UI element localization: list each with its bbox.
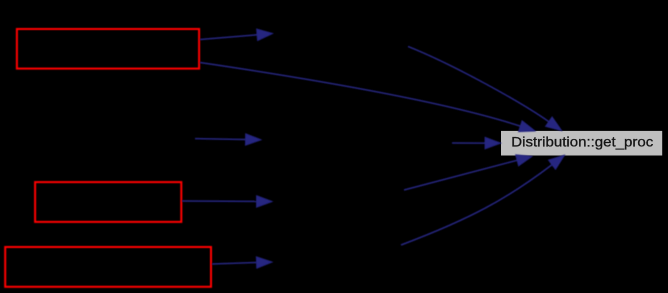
edge E2 box1->get_proc [200,63,535,132]
edge E6 box2->nodeD [182,196,272,207]
node get_proc (current node, grey) [501,131,662,156]
edge E5 nodeC->get_proc [452,137,501,148]
node box3 (red truncated caller, bottom-left) [5,247,211,287]
edge E8 box3->nodeE [212,257,272,268]
edge E4 nodeB->nodeC [195,134,261,145]
svg-text:Distribution::get_proc: Distribution::get_proc [511,133,653,149]
node box1 (red truncated caller, top-left) [17,29,199,69]
edge E1 box1->nodeA [200,29,273,40]
edge E9 nodeE->get_proc [401,155,564,245]
node box2 (red truncated caller, middle-left) [35,182,181,222]
edge E7 nodeD->get_proc [404,155,532,190]
edge E3 nodeA->get_proc [408,46,562,130]
